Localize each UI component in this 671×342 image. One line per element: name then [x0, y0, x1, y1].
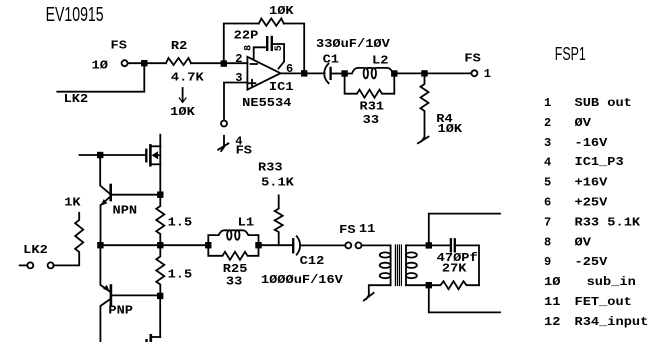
pin 3 -16V	[544, 136, 608, 150]
svg-text:22P: 22P	[234, 29, 259, 43]
junction rail mid	[158, 243, 163, 248]
svg-text:IC1: IC1	[269, 80, 294, 94]
inductor L1	[208, 215, 258, 245]
terminal FS 11	[339, 222, 375, 248]
svg-text:L2: L2	[372, 53, 388, 67]
wire op-amp output	[281, 72, 325, 74]
svg-text:ØV: ØV	[575, 235, 592, 249]
svg-text:27K: 27K	[442, 261, 468, 275]
svg-text:+25V: +25V	[575, 196, 609, 210]
svg-text:33: 33	[226, 274, 242, 288]
svg-text:sub_in: sub_in	[587, 275, 636, 289]
pin 4 IC1_P3	[544, 155, 624, 170]
svg-text:5.1K: 5.1K	[261, 175, 295, 189]
junction secondary top	[427, 243, 432, 248]
svg-text:R2: R2	[171, 39, 187, 53]
op-amp U1 IC1 NE5534	[235, 52, 293, 110]
terminal FS 10 (input)	[92, 39, 128, 73]
resistor R31 33	[345, 74, 395, 128]
wire feedback to output	[284, 24, 304, 74]
transistor Q2 NPN	[100, 155, 160, 245]
svg-text:SUB out: SUB out	[575, 96, 632, 110]
svg-text:LK2: LK2	[64, 92, 89, 106]
wire feedback loop	[224, 24, 259, 64]
svg-text:8: 8	[544, 235, 551, 249]
svg-text:11: 11	[544, 295, 560, 309]
svg-text:2: 2	[235, 52, 242, 66]
pin 12 R34_input	[544, 315, 648, 329]
pin 1 SUB out	[544, 96, 632, 110]
svg-text:5: 5	[274, 45, 285, 51]
junction input node	[142, 61, 147, 66]
svg-text:1ØØØuF/16V: 1ØØØuF/16V	[261, 273, 344, 287]
junction L1 left	[206, 243, 211, 248]
svg-text:1ØK: 1ØK	[170, 105, 196, 119]
svg-text:1Ø: 1Ø	[544, 275, 560, 289]
svg-text:R33 5.1K: R33 5.1K	[575, 215, 642, 229]
svg-text:33: 33	[363, 113, 379, 127]
svg-text:6: 6	[544, 196, 551, 210]
transistor Q4 FET bottom	[147, 335, 161, 342]
junction R4 tap	[422, 71, 427, 76]
wire emitter rail	[100, 244, 208, 246]
capacitor C 470Pf	[429, 239, 479, 265]
svg-text:11: 11	[359, 222, 375, 236]
capacitor C12 1000uF/16V	[261, 236, 344, 287]
wire FET gate rail	[80, 154, 146, 156]
pin 2 0V	[544, 116, 592, 130]
pin 8 0V	[544, 235, 592, 249]
svg-text:C12: C12	[300, 254, 325, 268]
svg-text:EV10915: EV10915	[46, 3, 104, 26]
resistor R33 5.1K	[258, 161, 295, 246]
svg-text:FS: FS	[111, 39, 127, 53]
svg-text:1ØK: 1ØK	[438, 122, 464, 136]
svg-text:33ØuF/1ØV: 33ØuF/1ØV	[316, 37, 391, 51]
junction L2 right	[392, 71, 397, 76]
transformer T1 primary	[364, 245, 391, 300]
terminal FS 4 (pin3)	[218, 121, 252, 158]
svg-text:8: 8	[244, 45, 255, 51]
svg-text:2: 2	[544, 116, 551, 130]
resistor R4 10K	[418, 73, 463, 143]
link LK2 jumper	[20, 243, 54, 269]
junction secondary bottom	[427, 283, 432, 288]
junction NPN base node	[158, 192, 163, 197]
pin 5 +16V	[544, 176, 608, 190]
resistor R 1K	[54, 196, 84, 266]
transistor Q3 PNP	[100, 245, 160, 342]
svg-text:+16V: +16V	[575, 176, 609, 190]
inductor L2	[345, 53, 395, 78]
svg-text:FS: FS	[464, 52, 480, 66]
svg-text:FS: FS	[236, 144, 252, 158]
capacitor C1 330uF/10V	[316, 37, 391, 83]
svg-text:9: 9	[544, 255, 551, 269]
svg-text:FET_out: FET_out	[575, 295, 632, 309]
wire snubber right side	[478, 245, 480, 285]
wire R2 to op-amp pin2	[191, 62, 247, 64]
resistor R1 10K feedback	[259, 4, 295, 26]
svg-text:3: 3	[544, 136, 551, 150]
resistor R25 33	[208, 245, 258, 288]
wire L1 to C12	[259, 244, 293, 246]
junction L1 right	[256, 243, 261, 248]
pin 6 +25V	[544, 196, 608, 210]
junction L2 left	[342, 71, 347, 76]
wire secondary top out	[429, 214, 500, 246]
svg-text:1.5: 1.5	[168, 215, 193, 229]
svg-text:FSP1: FSP1	[555, 44, 586, 64]
junction PNP base node	[158, 294, 163, 299]
transistor Q1 FET top	[146, 135, 160, 195]
pin 7 R33 5.1K	[544, 215, 641, 229]
svg-text:12: 12	[544, 315, 560, 329]
svg-text:5: 5	[544, 176, 551, 190]
resistor R 27K	[429, 261, 479, 289]
junction gate node	[98, 153, 103, 158]
svg-text:FS: FS	[339, 223, 355, 237]
svg-text:1: 1	[544, 96, 551, 110]
svg-text:1K: 1K	[64, 196, 81, 210]
svg-text:IC1_P3: IC1_P3	[575, 155, 624, 169]
transformer T1 secondary	[406, 245, 429, 285]
wire C1 to L2	[332, 73, 345, 75]
svg-text:R31: R31	[360, 100, 385, 114]
pin 10 sub_in	[544, 275, 636, 289]
svg-text:-16V: -16V	[575, 136, 609, 150]
svg-text:R33: R33	[258, 161, 283, 175]
capacitor C2 22P comp	[234, 29, 286, 69]
svg-text:LK2: LK2	[23, 243, 48, 257]
transformer T1 core	[395, 245, 401, 286]
svg-text:C1: C1	[323, 53, 339, 67]
svg-text:4: 4	[544, 156, 551, 170]
resistor R2	[166, 39, 205, 84]
wire op-amp pin3	[224, 83, 247, 121]
junction rail left	[98, 243, 103, 248]
svg-text:L1: L1	[238, 215, 254, 229]
svg-text:1.5: 1.5	[168, 267, 193, 281]
wire C12 to FS11	[300, 244, 345, 246]
resistor R lower 1.5	[156, 245, 192, 296]
svg-text:R34_input: R34_input	[575, 315, 649, 329]
wire FS11 to transformer	[362, 244, 391, 246]
svg-text:NE5534: NE5534	[242, 96, 291, 110]
wire LK2 drop	[57, 63, 144, 91]
junction output node	[302, 71, 307, 76]
svg-text:1ØK: 1ØK	[269, 4, 295, 18]
svg-text:7: 7	[544, 215, 551, 229]
wire input to R2	[128, 62, 166, 64]
resistor R upper 1.5	[156, 195, 192, 246]
annotation arrow 10K	[170, 88, 196, 119]
wire secondary bottom out	[429, 285, 500, 312]
wire to FET2	[159, 296, 161, 337]
svg-text:PNP: PNP	[108, 304, 133, 318]
pin 9 -25V	[544, 255, 608, 269]
svg-text:1Ø: 1Ø	[92, 58, 108, 72]
svg-text:1: 1	[484, 67, 491, 81]
svg-text:NPN: NPN	[113, 203, 138, 217]
svg-text:ØV: ØV	[575, 116, 592, 130]
pin 11 FET_out	[544, 295, 632, 309]
junction feedback tap	[222, 61, 227, 66]
svg-text:-25V: -25V	[575, 255, 609, 269]
terminal FS 1 (output)	[464, 52, 491, 82]
wire L2 to FS1	[394, 72, 471, 74]
svg-text:4.7K: 4.7K	[171, 70, 205, 84]
